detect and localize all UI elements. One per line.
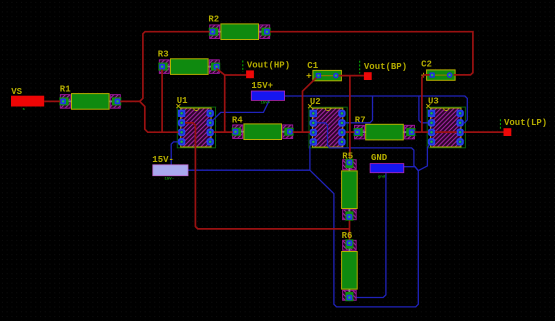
- resistor R6: [342, 231, 358, 301]
- wire U2 pin4 to 15V-: [310, 144, 312, 171]
- wire VS to R1: [44, 100, 60, 102]
- svg-text:15V-: 15V-: [152, 155, 174, 165]
- wire U2 pin5 internal run: [317, 123, 419, 171]
- svg-text:C2: C2: [421, 60, 432, 70]
- svg-text:VS: VS: [11, 87, 22, 97]
- wire U2 pin7 to 15V+ rail: [346, 96, 373, 123]
- wire R3 right to Vout(HP): [216, 68, 246, 75]
- wire R1 right to node: [120, 100, 140, 102]
- wire U1 pin7 to 15V+ symbol: [213, 100, 270, 120]
- wire R7 right to LP node: [414, 131, 422, 133]
- wire node up to R2 left: [140, 32, 210, 102]
- resistor R1: [59, 84, 121, 109]
- wire GND symbol right stub: [404, 167, 419, 171]
- svg-text:U1: U1: [177, 96, 188, 106]
- wire 15V- loop to U3 pin4: [310, 145, 429, 307]
- wire U1 pin6 feedback to R5/R6 junction: [185, 123, 350, 229]
- power 15V+ symbol: [251, 81, 284, 105]
- svg-text:Vout(HP): Vout(HP): [247, 60, 290, 70]
- resistor R4: [232, 115, 294, 139]
- op-amp U3: [426, 104, 465, 148]
- node Vout(BP) pad: [360, 61, 407, 80]
- wire R3 left down to node: [161, 69, 163, 132]
- wire 15V- rail horizontal: [188, 169, 310, 171]
- svg-text:R1: R1: [60, 84, 71, 94]
- svg-text:R3: R3: [158, 49, 169, 59]
- svg-text:R6: R6: [342, 231, 353, 241]
- svg-text:R2: R2: [208, 14, 219, 24]
- svg-text:GND: GND: [371, 153, 388, 163]
- wire GND symbol to R6 bottom: [349, 173, 386, 298]
- svg-text:R5: R5: [342, 152, 353, 162]
- wire bottom-layer 15V+ rail: [285, 96, 468, 123]
- power 15V- symbol: [152, 155, 188, 181]
- wire C1 left down to R4 node: [303, 78, 317, 133]
- wire R2 right to C2 right: [270, 32, 473, 75]
- wire U1 out to R4 left: [214, 131, 233, 133]
- wire U2 out to R7 left: [346, 131, 355, 133]
- svg-text:R4: R4: [232, 115, 243, 125]
- node Vout(HP) pad: [243, 60, 290, 78]
- svg-text:U3: U3: [428, 97, 439, 107]
- svg-text:15V+: 15V+: [251, 81, 273, 91]
- svg-text:gnd: gnd: [378, 175, 386, 180]
- resistor R3: [158, 49, 220, 74]
- op-amp U1: [176, 96, 215, 148]
- svg-text:C1: C1: [307, 61, 318, 71]
- capacitor C1: [307, 61, 342, 81]
- resistor R5: [342, 152, 358, 221]
- wire LP row to Vout(LP): [422, 131, 428, 133]
- node Vout(LP) pad: [500, 118, 547, 136]
- svg-text:R7: R7: [355, 115, 366, 125]
- wire U1 pin4 to 15V- symbol: [171, 142, 178, 165]
- wire C1 right to Vout(BP): [339, 75, 364, 77]
- svg-text:Vout(BP): Vout(BP): [364, 62, 407, 72]
- wire HP node down to main row: [224, 75, 226, 132]
- op-amp U2: [308, 97, 347, 148]
- wire BP node down to R5 top: [349, 76, 351, 163]
- wire node down to U1 pin2: [140, 101, 179, 132]
- resistor R7: [354, 115, 416, 140]
- wire U3 pin7 stub to 15V+ rail: [419, 96, 428, 123]
- capacitor C2: [421, 60, 455, 81]
- power VS pad: [11, 87, 44, 112]
- wire C2 left down to LP row: [422, 75, 430, 132]
- wire R5 bottom to R6 top: [349, 217, 351, 243]
- svg-text:Vout(LP): Vout(LP): [504, 118, 547, 128]
- wire R4 right to U2 pin2: [293, 131, 310, 133]
- svg-text:15V+: 15V+: [261, 101, 271, 105]
- power GND symbol: [370, 153, 404, 179]
- resistor R2: [208, 14, 270, 39]
- svg-text:U2: U2: [310, 97, 321, 107]
- svg-text:15V-: 15V-: [165, 177, 175, 181]
